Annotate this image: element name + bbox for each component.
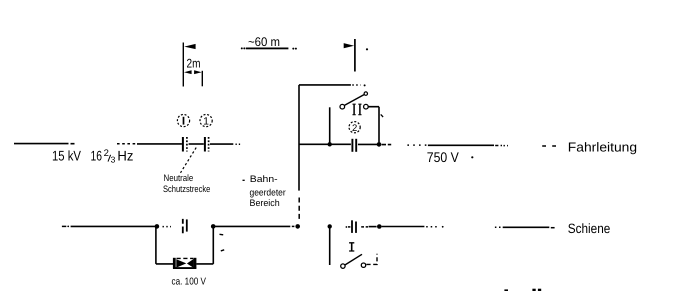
svg-text:Fahrleitung: Fahrleitung bbox=[568, 139, 637, 154]
svg-text:geerdeter: geerdeter bbox=[250, 186, 286, 197]
node junction rail right bbox=[377, 224, 382, 229]
dimension extension line right of 2m gap bbox=[201, 71, 203, 87]
node junction switch I top bbox=[328, 224, 332, 228]
svg-text:Bereich: Bereich bbox=[250, 197, 280, 208]
svg-text:15 kV: 15 kV bbox=[52, 148, 82, 164]
svg-text:2: 2 bbox=[352, 123, 357, 134]
wire top line dash-dot approach bbox=[117, 143, 182, 145]
label Fahrleitung bbox=[568, 139, 637, 154]
wire rail centre segment bbox=[213, 225, 294, 227]
wire rail far right segment bbox=[495, 226, 555, 228]
node junction boundary on rail bbox=[295, 224, 300, 229]
insulated rail joint left (solid bar) bbox=[186, 219, 188, 231]
leader line to Neutrale Schutzstrecke bbox=[181, 148, 197, 173]
voltage limiter box right bar bbox=[194, 258, 197, 269]
dimension line fragments around 60m text bbox=[241, 47, 297, 49]
svg-text:2m: 2m bbox=[187, 57, 201, 71]
node junction at switch II right branch bbox=[377, 142, 382, 147]
voltage limiter right triangle bbox=[187, 259, 194, 268]
dimension arrowhead right of 60m bbox=[344, 43, 354, 48]
wire top line dash-dot 750V segment bbox=[382, 145, 508, 146]
wire switch II right branch bbox=[368, 107, 379, 143]
wire bypass left horizontal bbox=[156, 263, 173, 265]
svg-text:Schutzstrecke: Schutzstrecke bbox=[163, 183, 210, 194]
label ~60 m bbox=[248, 35, 280, 49]
section insulator 1 (right pair, dashed electrode) bbox=[208, 137, 210, 152]
capacitor section insulator at feeder point (left plate) bbox=[351, 139, 353, 152]
switch II blade bbox=[344, 94, 364, 105]
circled label 2 for switch II bbox=[349, 122, 360, 134]
svg-text:~60 m: ~60 m bbox=[248, 35, 280, 49]
node junction at switch II left branch bbox=[328, 142, 332, 146]
cut-off glyph speck bottom right bbox=[532, 289, 541, 291]
wire switch I dashed connection bbox=[366, 254, 377, 265]
wire top line left segment bbox=[14, 143, 75, 145]
wire rail left dash-dot bbox=[62, 226, 69, 228]
section insulator 1 (right pair, solid electrode) bbox=[204, 137, 206, 152]
node junction rail left bypass bbox=[155, 224, 160, 229]
stray dash upper right of bypass bbox=[220, 233, 224, 236]
wire rail after right joint bbox=[361, 226, 376, 228]
label Schiene bbox=[568, 221, 611, 236]
stray dash lower right of bypass bbox=[221, 250, 224, 251]
wire switch II left branch bbox=[329, 107, 331, 144]
svg-text:3: 3 bbox=[111, 155, 116, 165]
voltage limiter left triangle bbox=[176, 259, 186, 267]
svg-text:ca. 100 V: ca. 100 V bbox=[172, 277, 207, 288]
wire between insulators bbox=[189, 143, 204, 145]
voltage limiter box bottom edge bbox=[173, 267, 196, 269]
capacitor section insulator at feeder point (right plate) bbox=[355, 139, 357, 152]
label 15 kV 16 2/3 Hz bbox=[52, 148, 133, 165]
circled label 1 on left insulator bbox=[177, 115, 189, 127]
svg-text:Schiene: Schiene bbox=[568, 221, 611, 236]
dimension extension line / feeder drop at 60m point bbox=[354, 39, 356, 72]
wire rail dash-dot before right joint bbox=[346, 226, 351, 228]
svg-text:Bahn-: Bahn- bbox=[250, 173, 278, 184]
label 2m bbox=[187, 57, 201, 71]
wire vertical from bus to top line bbox=[298, 85, 300, 191]
section insulator 1 (left pair, solid electrode) bbox=[182, 137, 184, 152]
insulated rail joint left (dashed bar) bbox=[182, 219, 184, 233]
switch II blade tip ring bbox=[364, 92, 367, 95]
wire switch I vertical branch bbox=[329, 226, 331, 265]
svg-text:750 V: 750 V bbox=[427, 149, 460, 165]
dimension arrowhead left of 60m bbox=[184, 44, 195, 49]
label ca. 100 V bbox=[172, 277, 207, 288]
wire top line to junction bbox=[358, 143, 378, 145]
svg-text:1: 1 bbox=[203, 116, 209, 128]
wire top line centre segment bbox=[299, 143, 351, 145]
switch II fixed contact bbox=[364, 104, 369, 109]
wire top line dashes before Fahrleitung label bbox=[542, 145, 556, 147]
switch II hinge contact bbox=[340, 104, 345, 109]
label I bbox=[349, 243, 354, 251]
wire rail left segment bbox=[71, 225, 157, 227]
section insulator 1 (left pair, dashed electrode) bbox=[186, 137, 188, 152]
label Bahn-geerdeter Bereich bbox=[250, 173, 286, 208]
dimension arrowhead 2m left bbox=[184, 70, 192, 74]
switch I blade bbox=[345, 254, 362, 265]
svg-text:16: 16 bbox=[91, 148, 103, 164]
svg-text:2: 2 bbox=[104, 148, 109, 159]
wire bypass right vertical bbox=[212, 226, 214, 264]
switch I fixed contact bbox=[361, 263, 365, 267]
stray tick right of switch II branch bbox=[381, 114, 383, 117]
voltage limiter box top dashed edge bbox=[177, 257, 194, 259]
insulated rail joint right (right bar) bbox=[355, 222, 357, 233]
dimension extension line at left insulator bbox=[182, 43, 184, 87]
label Neutrale Schutzstrecke bbox=[163, 172, 210, 194]
wire bypass left vertical bbox=[155, 226, 157, 264]
wire rail long right segment bbox=[382, 226, 444, 228]
dimension arrowhead 2m right bbox=[194, 70, 202, 74]
wire dashed boundary to rail bbox=[298, 198, 300, 222]
wire bypass right horizontal bbox=[196, 263, 213, 265]
circled label 1 on right insulator bbox=[200, 115, 212, 128]
node junction rail right bypass bbox=[211, 224, 216, 229]
stray dot near feeder top bbox=[366, 48, 368, 50]
wire bus above switch II bbox=[299, 84, 366, 86]
insulated rail joint right (left bar) bbox=[351, 220, 353, 233]
wire top line after neutral section bbox=[210, 143, 241, 145]
label II bbox=[353, 104, 362, 115]
voltage limiter box left bar bbox=[173, 258, 176, 269]
leader dash before Bahn label bbox=[243, 179, 245, 181]
switch I hinge contact bbox=[341, 264, 345, 268]
wire rail dots before joint bbox=[163, 226, 172, 228]
svg-text:Hz: Hz bbox=[117, 148, 133, 164]
cut-off glyph speck bottom left bbox=[504, 289, 508, 291]
label 750 V bbox=[427, 149, 474, 165]
svg-text:Neutrale: Neutrale bbox=[164, 172, 194, 183]
